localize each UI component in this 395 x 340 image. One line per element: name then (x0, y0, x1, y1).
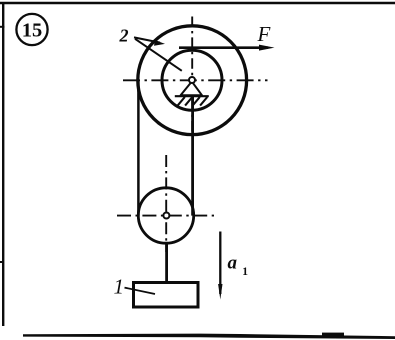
problem number badge circle 15 (16, 14, 47, 45)
support hatch 2 (185, 97, 192, 106)
svg-text:1: 1 (114, 275, 125, 299)
bottom rule bump (322, 333, 344, 336)
svg-text:2: 2 (119, 25, 129, 45)
acceleration a1 arrowhead (218, 284, 222, 300)
frame top border (0, 2, 395, 5)
support hatch 3 (193, 97, 200, 106)
pulley 2 axle pin (189, 77, 195, 83)
rope left (outer rim to movable pulley) (137, 81, 140, 216)
pulley 2 outer circle (138, 26, 247, 135)
rope to weight (165, 243, 168, 283)
movable pulley circle (138, 188, 193, 243)
leader line 2 to inner disc (135, 39, 182, 71)
acceleration a1 arrow line (219, 232, 221, 295)
centerline vertical, movable pulley (165, 155, 167, 252)
leader line 1 into block (125, 288, 156, 294)
svg-text:1: 1 (242, 266, 248, 278)
support hatch 1 (178, 97, 185, 106)
centerline horizontal, movable pulley (117, 215, 214, 217)
leader line 2 to outer rim (134, 37, 160, 42)
rope right (support to movable pulley) (191, 96, 194, 216)
frame left border (2, 2, 4, 326)
scan tick on left border (0, 26, 5, 28)
svg-text:F: F (257, 22, 271, 46)
fixed support triangle (181, 82, 202, 96)
pulley 2 inner circle (162, 50, 222, 110)
weight block 1 (134, 283, 199, 308)
leader 2 arrowhead (154, 40, 165, 46)
bottom rule (23, 334, 395, 339)
force F rope line (179, 46, 268, 49)
force F arrowhead (259, 45, 275, 51)
svg-text:15: 15 (22, 19, 43, 41)
svg-text:a: a (228, 253, 238, 274)
support ground line (175, 95, 209, 97)
movable pulley axle pin (163, 213, 169, 219)
scan tick left border lower (0, 261, 4, 263)
centerline vertical, pulley 2 (191, 17, 193, 137)
support hatch 4 (200, 97, 207, 106)
centerline horizontal, pulley 2 (123, 79, 268, 81)
